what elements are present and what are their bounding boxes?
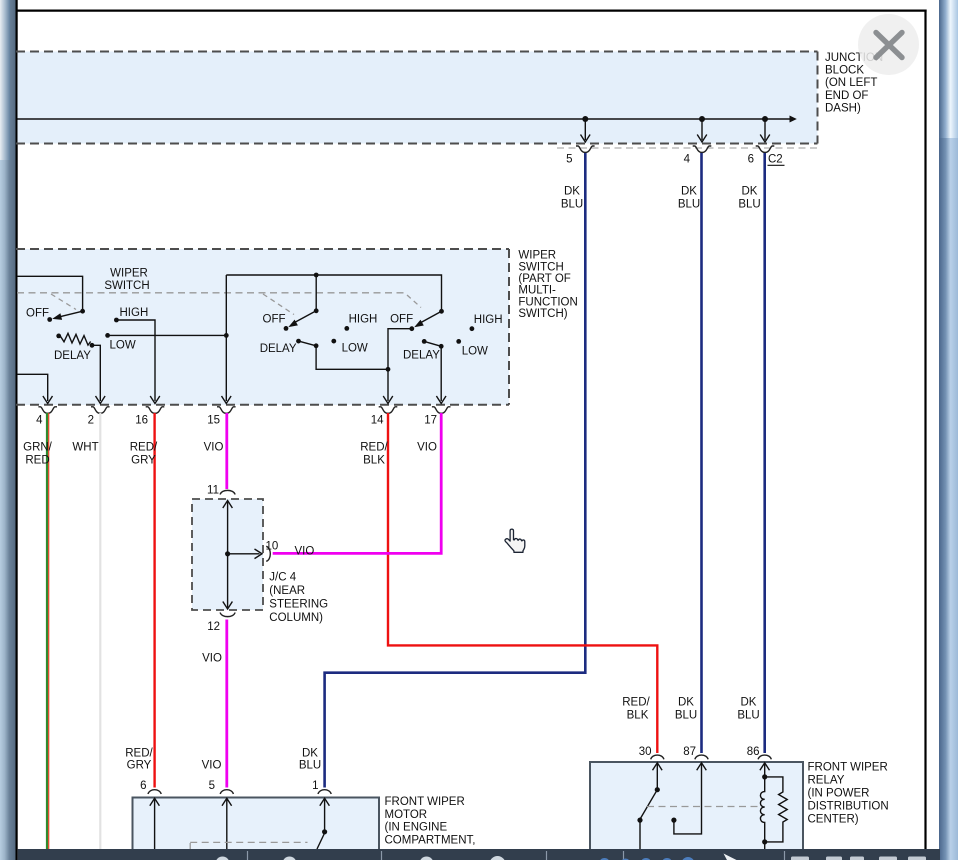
node at bus pin 4	[699, 116, 705, 122]
svg-text:BLU: BLU	[299, 759, 321, 771]
svg-text:87: 87	[683, 746, 696, 758]
svg-text:DELAY: DELAY	[260, 343, 297, 355]
svg-text:DK: DK	[302, 747, 318, 759]
mechanical link dashed line	[17, 292, 407, 294]
motor pin 6 connector arc	[148, 790, 161, 794]
switch pin 15 connector arc	[217, 407, 236, 414]
switch pin 17 connector arc	[432, 407, 451, 414]
svg-text:OFF: OFF	[390, 314, 413, 326]
switch pin 4 connector arc	[38, 407, 57, 414]
svg-text:BLU: BLU	[738, 199, 760, 211]
svg-text:GRY: GRY	[127, 759, 152, 771]
switch bus top wire	[226, 275, 441, 309]
mechanical link diagonal switch 1	[51, 294, 76, 310]
switch 2 lever	[288, 311, 316, 327]
wiper switch outer label	[518, 250, 577, 321]
bus drop to pin 6	[760, 122, 770, 143]
svg-text:2: 2	[88, 415, 94, 427]
switch 2 LOW contact	[331, 339, 336, 344]
svg-text:COMPARTMENT,: COMPARTMENT,	[385, 834, 476, 846]
mechanical link diagonal switch 3	[407, 295, 421, 308]
switch 2 delay lever	[299, 341, 317, 346]
svg-text:LOW: LOW	[342, 342, 368, 354]
J/C 4 pin 10 connector arc	[266, 546, 270, 561]
switch 3 OFF contact	[409, 326, 414, 331]
svg-text:SWITCH: SWITCH	[104, 280, 149, 292]
wire DK BLU jb5 to motor 1	[325, 153, 586, 788]
motor pin 1 connector arc	[318, 790, 331, 794]
svg-text:BLU: BLU	[675, 709, 697, 721]
relay coil (inductor)	[760, 777, 764, 842]
wire VIO J/C4 12 to motor 5	[225, 620, 228, 788]
svg-text:HIGH: HIGH	[120, 307, 149, 319]
switch 2 DELAY contact	[296, 339, 301, 344]
svg-text:SWITCH: SWITCH	[518, 261, 563, 273]
connector label C2	[768, 154, 785, 166]
svg-text:LOW: LOW	[462, 345, 488, 357]
svg-text:4: 4	[684, 154, 691, 166]
J/C 4 pin 12 connector arc	[220, 613, 235, 617]
svg-text:DK: DK	[564, 186, 580, 198]
svg-text:(IN POWER: (IN POWER	[808, 788, 870, 800]
switch 2 pivot node	[314, 308, 319, 313]
svg-text:DK: DK	[678, 697, 694, 709]
svg-text:(ON LEFT: (ON LEFT	[825, 77, 877, 89]
switch 1 feed wire	[17, 276, 83, 309]
svg-text:OFF: OFF	[26, 307, 49, 319]
svg-text:RED/: RED/	[622, 697, 650, 709]
label DK BLU jb pin 5	[561, 186, 583, 211]
bus drop to pin 5	[581, 122, 591, 143]
wire WHT pin 2	[99, 413, 101, 849]
node at bus pin 5	[582, 116, 588, 122]
svg-text:BLU: BLU	[561, 199, 583, 211]
resistor (delay)	[61, 333, 91, 345]
bus drop to pin 4	[697, 122, 707, 143]
svg-text:BLK: BLK	[627, 709, 649, 721]
svg-text:RED/: RED/	[125, 747, 153, 759]
wire RED/BLK pin 14 to relay 30	[388, 413, 657, 753]
wire to pin 4	[17, 374, 53, 403]
svg-text:15: 15	[207, 415, 220, 427]
svg-text:6: 6	[140, 780, 146, 792]
svg-text:C2: C2	[768, 154, 783, 166]
svg-text:BLOCK: BLOCK	[825, 65, 864, 77]
relay contact lever	[640, 790, 657, 819]
front wiper motor box	[133, 798, 380, 861]
svg-text:10: 10	[266, 541, 279, 553]
svg-text:14: 14	[371, 415, 384, 427]
switch pin 2 connector arc	[91, 407, 110, 414]
J/C 4 junction box	[192, 499, 263, 610]
wire GRN/RED pin 4	[47, 413, 49, 849]
left scrollbar	[0, 0, 16, 860]
label DK BLU motor	[299, 747, 321, 771]
wire VIO pin 17 to J/C4 10	[273, 413, 442, 553]
svg-text:MULTI-: MULTI-	[518, 285, 556, 297]
wire resistor to pin 2	[92, 345, 105, 403]
svg-text:DK: DK	[681, 186, 697, 198]
J/C 4 center node	[225, 551, 230, 556]
node at bus pin 6	[762, 116, 768, 122]
svg-text:VIO: VIO	[417, 442, 437, 454]
svg-text:(PART OF: (PART OF	[518, 273, 570, 285]
wire DK BLU jb4 to relay 87	[700, 153, 703, 753]
svg-text:6: 6	[748, 154, 754, 166]
svg-text:FRONT WIPER: FRONT WIPER	[385, 796, 465, 808]
relay coil bottom node	[762, 839, 767, 844]
label DK BLU relay 86	[737, 697, 759, 722]
pin 6 connector arc	[756, 146, 775, 153]
wire DK BLU jb6 to relay 86	[763, 153, 766, 753]
svg-text:DK: DK	[741, 697, 757, 709]
svg-text:GRN/: GRN/	[23, 442, 53, 454]
svg-text:RED: RED	[25, 454, 49, 466]
svg-text:DELAY: DELAY	[54, 350, 91, 362]
svg-text:BLU: BLU	[678, 199, 700, 211]
wiper switch inner title	[104, 268, 149, 293]
motor park switch lever	[317, 833, 325, 849]
svg-text:4: 4	[36, 415, 43, 427]
label DK BLU relay 87	[675, 697, 697, 722]
svg-text:FRONT WIPER: FRONT WIPER	[808, 762, 888, 774]
front wiper relay box	[590, 762, 803, 860]
svg-text:RELAY: RELAY	[808, 775, 845, 787]
switch pin 14 connector arc	[379, 407, 398, 414]
switch 2 stem	[315, 275, 317, 309]
relay mechanical dashed link	[647, 806, 759, 808]
close button	[858, 14, 919, 75]
motor pin 6 internal wire	[150, 798, 160, 849]
motor pin 5 connector arc	[220, 790, 233, 794]
relay pin 30 connector arc	[651, 755, 664, 759]
svg-text:12: 12	[207, 621, 220, 633]
svg-text:RED/: RED/	[130, 442, 158, 454]
switch 2 delay node	[314, 343, 319, 348]
svg-text:30: 30	[639, 746, 652, 758]
wire RED/GRY pin 16 to motor 6	[153, 413, 155, 788]
label RED/GRY upper	[130, 442, 158, 467]
svg-text:GRY: GRY	[131, 454, 156, 466]
switch 3 DELAY contact	[422, 339, 427, 344]
switch 3 delay lever	[424, 341, 441, 346]
bottom toolbar	[18, 849, 940, 865]
svg-text:5: 5	[209, 780, 215, 792]
relay pin 86 internal wire	[760, 763, 770, 777]
motor pin 1 internal wire	[320, 798, 330, 832]
J/C 4 label	[269, 572, 328, 625]
svg-text:1: 1	[312, 780, 318, 792]
svg-text:BLU: BLU	[737, 709, 759, 721]
switch 3 pivot node	[439, 309, 444, 314]
label RED/BLK relay	[622, 697, 650, 722]
switch 2 OFF contact	[284, 326, 289, 331]
relay pin 86 connector arc	[758, 755, 771, 759]
label GRN/RED	[23, 442, 53, 467]
relay lever contact node	[637, 818, 642, 823]
label RED/GRY lower	[125, 747, 153, 771]
svg-text:DASH): DASH)	[825, 103, 861, 115]
motor park switch node	[322, 829, 327, 834]
svg-text:MOTOR: MOTOR	[385, 809, 428, 821]
switch 3 lever	[414, 311, 441, 327]
svg-text:11: 11	[207, 485, 219, 497]
svg-text:BLK: BLK	[363, 454, 385, 466]
svg-text:CENTER): CENTER)	[808, 814, 859, 826]
svg-text:VIO: VIO	[202, 759, 222, 771]
J/C 4 internal bus	[223, 501, 262, 610]
pin 4 connector arc	[693, 146, 712, 153]
relay coil top node	[762, 774, 767, 779]
junction block label	[825, 52, 883, 115]
svg-text:VIO: VIO	[295, 546, 315, 558]
svg-text:WIPER: WIPER	[110, 268, 148, 280]
svg-text:OFF: OFF	[263, 313, 286, 325]
svg-text:DK: DK	[742, 186, 758, 198]
motor park dashed link	[190, 842, 307, 849]
mouse hand cursor	[505, 529, 525, 552]
svg-text:END OF: END OF	[825, 90, 868, 102]
switch 1 OFF contact	[47, 317, 52, 322]
J/C 4 pin 11 connector arc	[220, 490, 235, 494]
svg-text:(NEAR: (NEAR	[269, 585, 305, 597]
svg-text:HIGH: HIGH	[474, 314, 503, 326]
svg-text:DELAY: DELAY	[403, 350, 440, 362]
relay coil resistor branch	[765, 777, 788, 842]
wire delay2 to pin14 junction	[316, 346, 388, 370]
junction block box	[16, 52, 818, 144]
svg-text:LOW: LOW	[110, 339, 136, 351]
switch 1 HIGH contact	[114, 318, 119, 323]
switch 3 LOW contact	[456, 339, 461, 344]
svg-text:SWITCH): SWITCH)	[518, 308, 567, 320]
relay pivot node	[655, 787, 660, 792]
svg-text:COLUMN): COLUMN)	[269, 612, 323, 624]
relay common wire down	[639, 820, 641, 849]
svg-text:86: 86	[747, 746, 760, 758]
svg-text:WHT: WHT	[72, 442, 98, 454]
motor pin 5 internal wire	[222, 798, 232, 849]
switch 1 pivot node	[80, 309, 85, 314]
wiper switch box	[16, 249, 509, 405]
mechanical link diagonal switch 2	[263, 294, 294, 315]
svg-text:FUNCTION: FUNCTION	[518, 296, 577, 308]
resistor end node	[90, 343, 95, 348]
svg-text:STEERING: STEERING	[269, 599, 328, 611]
svg-text:WIPER: WIPER	[518, 250, 556, 262]
switch pin 16 connector arc	[146, 407, 165, 414]
junction block bus wire	[18, 116, 797, 123]
node bus switch 2	[314, 273, 319, 278]
svg-text:HIGH: HIGH	[349, 313, 378, 325]
svg-text:J/C 4: J/C 4	[269, 572, 296, 584]
svg-text:VIO: VIO	[204, 442, 224, 454]
switch 3 OFF wire to pin 14	[383, 329, 412, 404]
relay NO contact node	[671, 818, 676, 823]
switch 3 HIGH contact	[470, 326, 475, 331]
switch 1 DELAY contact	[56, 334, 61, 339]
svg-text:VIO: VIO	[202, 652, 222, 664]
label DK BLU jb pin 6	[738, 186, 760, 211]
switch 1 LOW wire	[108, 334, 227, 336]
front wiper motor label	[385, 796, 476, 846]
junction node pin 14	[386, 367, 391, 372]
wire pin 15 vertical	[222, 275, 232, 404]
front wiper relay label	[808, 762, 889, 826]
switch 1 lever	[52, 311, 82, 320]
switch 2 HIGH contact	[344, 326, 349, 331]
relay coil ground wire	[764, 842, 766, 849]
svg-text:17: 17	[424, 415, 437, 427]
switch 1 HIGH wire to pin 16	[116, 320, 159, 404]
switch 1 LOW contact	[105, 333, 110, 338]
svg-text:16: 16	[135, 415, 148, 427]
connector C2 dashed line	[557, 147, 818, 149]
label RED/BLK upper	[360, 442, 388, 467]
svg-text:5: 5	[566, 154, 572, 166]
svg-text:DISTRIBUTION: DISTRIBUTION	[808, 801, 889, 813]
svg-text:RED/: RED/	[360, 442, 388, 454]
node LOW / pin15	[224, 333, 229, 338]
pin 5 connector arc	[576, 146, 595, 153]
relay pin 87 internal wire	[674, 763, 706, 834]
svg-text:(IN ENGINE: (IN ENGINE	[385, 822, 448, 834]
relay pin 87 connector arc	[695, 755, 708, 759]
wire VIO pin 15 to J/C4 11	[225, 413, 228, 489]
wire delay3 to pin 17	[436, 346, 446, 403]
label DK BLU jb pin 4	[678, 186, 700, 211]
relay pin 30 internal wire	[653, 763, 663, 790]
switch 3 delay node	[439, 344, 444, 349]
right scrollbar	[939, 0, 958, 860]
